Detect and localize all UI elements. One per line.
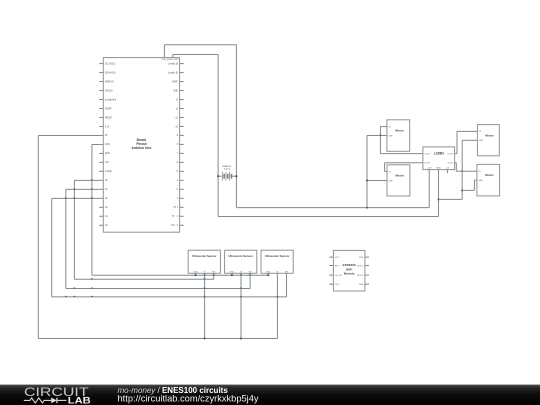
svg-text:SIG: SIG [212, 271, 216, 273]
svg-text:RST: RST [335, 265, 340, 267]
svg-text:GND: GND [105, 153, 110, 155]
svg-text:Motor: Motor [395, 174, 404, 178]
svg-text:OUT2: OUT2 [424, 163, 430, 165]
svg-text:Motor: Motor [485, 173, 494, 177]
svg-text:OUT3: OUT3 [448, 163, 454, 165]
svg-text:(unlab) (B: (unlab) (B [168, 63, 178, 65]
svg-text:GND: GND [173, 90, 178, 92]
svg-text:AREF(J): AREF(J) [105, 80, 114, 83]
svg-text:GND: GND [359, 284, 364, 286]
svg-text:IOREF: IOREF [105, 108, 113, 110]
svg-text:GND: GND [193, 271, 198, 273]
svg-text:GND: GND [388, 135, 393, 137]
svg-text:SCL/A5(J): SCL/A5(J) [105, 62, 116, 65]
svg-text:RX←0: RX←0 [171, 225, 178, 227]
svg-text:Ultrasonic Sensor: Ultrasonic Sensor [228, 254, 254, 258]
svg-text:GND: GND [105, 144, 110, 146]
svg-text:GPIO2: GPIO2 [357, 275, 364, 277]
svg-text:VCC: VCC [335, 257, 340, 259]
svg-text:SIG: SIG [248, 271, 252, 273]
svg-text:(unlab) (B: (unlab) (B [168, 72, 178, 74]
svg-text:TX 1: TX 1 [173, 207, 179, 209]
svg-text:+12V: +12V [427, 167, 433, 169]
svg-text:RXD: RXD [359, 257, 364, 259]
svg-text:OUT4: OUT4 [448, 154, 454, 156]
svg-text:GND: GND [266, 271, 271, 273]
svg-text:7.2 V: 7.2 V [224, 167, 231, 171]
svg-text:5V0 (J)GND (J)VIN: 5V0 (J)GND (J)VIN [161, 59, 179, 61]
svg-text:Arduino Uno: Arduino Uno [131, 146, 151, 150]
svg-text:L298N: L298N [434, 152, 445, 156]
svg-text:(unlab): (unlab) [105, 171, 112, 173]
svg-text:Motor: Motor [485, 133, 494, 137]
svg-text:3.3V: 3.3V [105, 126, 110, 128]
svg-text:Motor: Motor [395, 129, 404, 133]
svg-text:AREF: AREF [172, 80, 179, 83]
svg-text:Ultrasonic Sensor: Ultrasonic Sensor [265, 254, 291, 258]
svg-text:TX→1: TX→1 [172, 216, 179, 218]
svg-text:GND: GND [478, 180, 483, 182]
svg-text:CH_PD: CH_PD [335, 275, 343, 277]
svg-text:5V: 5V [105, 135, 108, 137]
svg-text:http://circuitlab.com/czyrkxkb: http://circuitlab.com/czyrkxkbp5j4y [118, 393, 259, 403]
svg-text:GND: GND [436, 167, 441, 169]
svg-text:GND: GND [230, 271, 235, 273]
svg-text:GND: GND [479, 140, 484, 142]
svg-text:SIG: SIG [285, 271, 289, 273]
svg-text:GND: GND [388, 180, 393, 182]
svg-text:SDA/A4(J): SDA/A4(J) [105, 71, 116, 74]
svg-text:VIN: VIN [105, 162, 109, 164]
svg-text:Ultrasonic Sensor: Ultrasonic Sensor [192, 254, 218, 258]
svg-text:(unlabeled): (unlabeled) [105, 99, 117, 101]
svg-text:GPIO0: GPIO0 [357, 265, 364, 267]
svg-text:+5V: +5V [446, 167, 450, 169]
svg-text:GND(J): GND(J) [105, 90, 113, 92]
svg-text:RESET: RESET [105, 117, 113, 119]
svg-text:TXD: TXD [335, 284, 340, 286]
svg-text:Module: Module [344, 272, 355, 276]
svg-text:OUT1: OUT1 [424, 154, 430, 156]
svg-text:LAB: LAB [68, 396, 92, 405]
